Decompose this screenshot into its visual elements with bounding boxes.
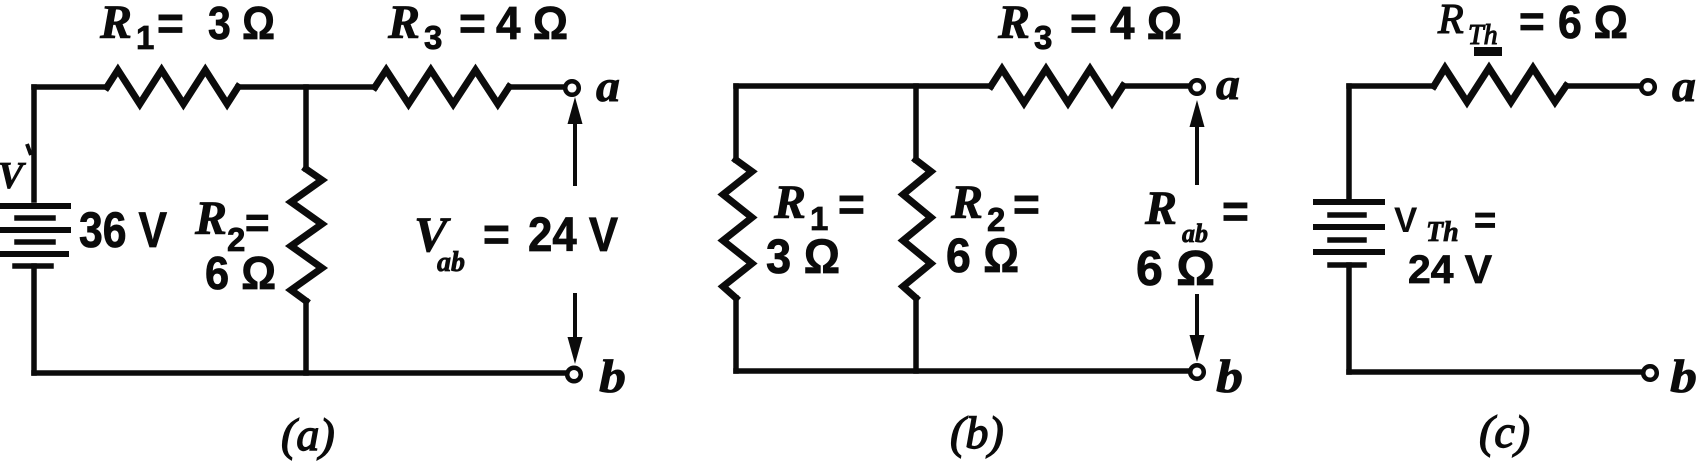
arrow down (b) above terminal b bbox=[1190, 294, 1205, 362]
svg-text:(b): (b) bbox=[950, 407, 1004, 458]
battery V (a) long plate 3 bbox=[1, 251, 66, 257]
wire (b) R1 branch bottom bbox=[733, 298, 739, 371]
wire (b) R1 branch top bbox=[733, 86, 739, 160]
svg-text:R: R bbox=[773, 176, 806, 229]
resistor R2 (b) zigzag bbox=[903, 160, 931, 298]
svg-text:R: R bbox=[950, 176, 983, 229]
wire (a) bottom bbox=[34, 370, 565, 376]
wire (c) left vertical top bbox=[1346, 86, 1352, 198]
svg-text:6 Ω: 6 Ω bbox=[946, 230, 1019, 283]
svg-text:=: = bbox=[1222, 185, 1249, 237]
resistor R1 (a) zigzag bbox=[107, 70, 238, 104]
svg-text:ab: ab bbox=[437, 247, 465, 278]
svg-text:4 Ω: 4 Ω bbox=[1110, 0, 1182, 49]
svg-text:R: R bbox=[1144, 182, 1177, 235]
wire (a) left vertical bottom bbox=[31, 266, 37, 373]
arrow up (b) below terminal a bbox=[1190, 100, 1205, 185]
wire (b) bottom bbox=[736, 368, 1188, 374]
wire (a) top left segment bbox=[34, 84, 107, 90]
svg-text:=: = bbox=[459, 0, 486, 49]
svg-text:4 Ω: 4 Ω bbox=[496, 0, 568, 49]
svg-text:R: R bbox=[387, 0, 420, 49]
svg-text:6 Ω: 6 Ω bbox=[205, 247, 276, 299]
svg-text:6 Ω: 6 Ω bbox=[1136, 242, 1215, 296]
svg-text:24 V: 24 V bbox=[1408, 248, 1492, 292]
resistor R3 (a) zigzag bbox=[375, 70, 509, 104]
battery VTh (c) long plate 3 bbox=[1316, 249, 1382, 255]
battery V (a) long plate 2 bbox=[3, 227, 68, 233]
svg-text:3 Ω: 3 Ω bbox=[766, 231, 840, 284]
svg-text:=: = bbox=[1519, 0, 1545, 46]
battery V (a) short plate 2 bbox=[17, 239, 53, 245]
svg-text:24 V: 24 V bbox=[528, 209, 618, 262]
battery VTh (c) short plate 3 bbox=[1330, 262, 1364, 268]
wire (c) top right to terminal a bbox=[1566, 83, 1639, 89]
wire (a) top right to terminal a bbox=[509, 84, 563, 90]
resistor R3 (b) zigzag bbox=[991, 69, 1123, 103]
svg-text:a: a bbox=[1216, 60, 1240, 109]
wire (a) top middle segment bbox=[238, 84, 375, 90]
wire (a) left vertical top bbox=[31, 87, 37, 200]
svg-text:Th: Th bbox=[1426, 217, 1459, 248]
terminal b (c) bbox=[1643, 366, 1657, 380]
svg-text:V: V bbox=[0, 155, 26, 197]
svg-text:R: R bbox=[1437, 0, 1464, 43]
terminal a (a) bbox=[565, 81, 579, 95]
arrow up (a) below terminal a bbox=[568, 97, 583, 186]
svg-text:R: R bbox=[99, 0, 132, 49]
svg-text:b: b bbox=[599, 351, 626, 403]
terminal a (c) bbox=[1641, 80, 1655, 94]
svg-text:(a): (a) bbox=[281, 409, 335, 460]
battery plus tick (a) bbox=[27, 144, 31, 155]
wire (a) R2 branch top bbox=[303, 87, 309, 169]
svg-text:a: a bbox=[596, 62, 620, 111]
svg-text:a: a bbox=[1672, 62, 1696, 111]
arrow down (a) above terminal b bbox=[568, 293, 583, 364]
wire (a) R2 branch bottom bbox=[303, 301, 309, 373]
underline below Th (c) bbox=[1474, 47, 1502, 56]
svg-text:b: b bbox=[1670, 351, 1697, 403]
wire (b) top right to terminal a bbox=[1123, 83, 1188, 89]
battery VTh (c) short plate 1 bbox=[1330, 212, 1364, 218]
svg-text:=: = bbox=[1474, 200, 1496, 242]
battery V (a) short plate 1 bbox=[17, 215, 53, 221]
svg-text:=: = bbox=[483, 208, 510, 260]
terminal a (b) bbox=[1190, 80, 1204, 94]
wire (b) top bbox=[736, 83, 991, 89]
battery VTh (c) short plate 2 bbox=[1330, 237, 1364, 243]
wire (c) top left segment bbox=[1349, 83, 1434, 89]
svg-text:=: = bbox=[245, 199, 270, 246]
svg-text:Th: Th bbox=[1468, 20, 1498, 51]
svg-text:3: 3 bbox=[1034, 19, 1052, 56]
svg-text:=: = bbox=[1013, 178, 1040, 230]
svg-text:3 Ω: 3 Ω bbox=[208, 0, 275, 49]
svg-text:R: R bbox=[997, 0, 1030, 49]
terminal b (b) bbox=[1190, 365, 1204, 379]
resistor RTh (c) zigzag bbox=[1434, 68, 1566, 102]
svg-text:3: 3 bbox=[424, 19, 442, 56]
wire (c) left vertical bottom bbox=[1346, 265, 1352, 372]
svg-text:=: = bbox=[157, 0, 184, 49]
wire (b) R2 branch top bbox=[913, 86, 919, 160]
wire (b) R2 branch bottom bbox=[913, 298, 919, 371]
svg-text:=: = bbox=[1070, 0, 1097, 49]
svg-text:1: 1 bbox=[136, 19, 154, 56]
resistor R1 (b) zigzag bbox=[723, 160, 752, 298]
svg-text:36 V: 36 V bbox=[79, 202, 168, 258]
resistor R2 (a) zigzag bbox=[291, 169, 322, 301]
svg-text:=: = bbox=[838, 178, 865, 230]
wire (c) bottom bbox=[1349, 369, 1641, 375]
svg-text:6 Ω: 6 Ω bbox=[1558, 0, 1628, 48]
battery V (a) short plate 3 bbox=[15, 263, 51, 269]
svg-text:V: V bbox=[1394, 201, 1418, 240]
svg-text:b: b bbox=[1216, 351, 1243, 403]
battery VTh (c) long plate 1 bbox=[1316, 199, 1382, 205]
battery V (a) long plate 1 bbox=[3, 203, 68, 209]
svg-text:(c): (c) bbox=[1479, 406, 1530, 457]
terminal b (a) bbox=[567, 368, 581, 382]
battery VTh (c) long plate 2 bbox=[1316, 224, 1382, 230]
svg-text:R: R bbox=[194, 192, 227, 245]
